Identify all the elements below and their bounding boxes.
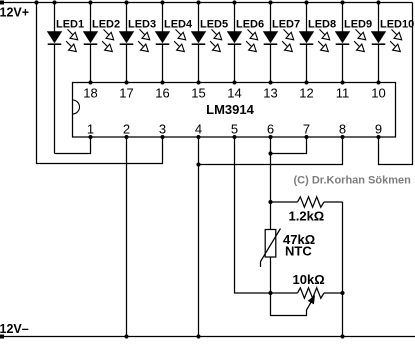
svg-text:6: 6 (267, 122, 274, 137)
pin 11 of U1 (336, 81, 350, 101)
wire pin6 (RHI) down to thermistor (270, 137, 272, 230)
wire pin8 to pin4 (199, 137, 343, 165)
node R1 left junction (268, 200, 272, 204)
wire pin3 (V+) to 12V+ rail (37, 3, 163, 164)
LED D9 (LED9) (336, 3, 372, 83)
svg-text:12V–: 12V– (0, 322, 29, 336)
LED D6 (LED6) (228, 3, 264, 83)
wire R1 right to 12V- rail (342, 202, 344, 337)
svg-text:12: 12 (299, 86, 313, 101)
svg-text:10kΩ: 10kΩ (293, 272, 325, 287)
svg-text:10: 10 (371, 86, 385, 101)
svg-text:4: 4 (195, 122, 202, 137)
pot wiper arrow (307, 296, 315, 310)
pin 15 of U1 (191, 81, 205, 101)
node rail junctions on 12V- (124, 334, 344, 338)
svg-text:LED2: LED2 (92, 19, 120, 31)
pin 12 of U1 (299, 81, 313, 101)
wire pin1 to LED1 cathode (55, 137, 91, 154)
wire pin7 (REF OUT) to pin6 (271, 137, 307, 154)
node pot right / R1 junction (340, 291, 344, 295)
LED D4 (LED4) (156, 3, 193, 83)
svg-text:LED3: LED3 (128, 19, 156, 31)
potentiometer P1 10kΩ (271, 272, 343, 298)
pin 9 of U1 (375, 122, 382, 140)
svg-text:LED4: LED4 (164, 19, 193, 31)
svg-text:18: 18 (83, 86, 97, 101)
pin 10 of U1 (371, 81, 385, 101)
pin 14 of U1 (227, 81, 241, 101)
svg-text:9: 9 (375, 122, 382, 137)
wire pin2 to 12V- rail (126, 137, 128, 337)
pin 7 of U1 (303, 122, 310, 140)
svg-text:NTC: NTC (285, 244, 312, 259)
svg-text:13: 13 (263, 86, 277, 101)
svg-text:LED6: LED6 (236, 19, 264, 31)
wire pin9 (MODE) to 12V+ rail (379, 3, 413, 165)
LED D5 (LED5) (192, 3, 228, 83)
svg-text:8: 8 (339, 122, 346, 137)
svg-text:(C) Dr.Korhan Sökmen: (C) Dr.Korhan Sökmen (294, 175, 412, 187)
svg-text:12V+: 12V+ (0, 5, 29, 19)
wire pin4 to 12V- rail (198, 137, 200, 337)
svg-text:LED8: LED8 (308, 19, 336, 31)
wire pin5 (SIG IN) to divider node (235, 137, 271, 293)
svg-text:14: 14 (227, 86, 241, 101)
LED D10 (LED10) (372, 3, 415, 83)
pin 4 of U1 (195, 122, 202, 140)
svg-text:11: 11 (336, 86, 350, 101)
pin 1 of U1 (87, 122, 94, 140)
pin 6 of U1 (267, 122, 274, 140)
svg-text:5: 5 (231, 122, 238, 137)
svg-text:LED7: LED7 (272, 19, 300, 31)
pin 5 of U1 (231, 122, 238, 140)
svg-text:1.2kΩ: 1.2kΩ (289, 209, 325, 224)
pin 13 of U1 (263, 81, 277, 101)
svg-text:LED5: LED5 (200, 19, 228, 31)
svg-text:LM3914: LM3914 (206, 102, 254, 117)
svg-text:LED9: LED9 (344, 19, 372, 31)
node divider junction (pin5/NTC/pot) (268, 291, 272, 295)
op-amp / IC U1 LM3914 body (73, 83, 396, 138)
svg-text:LED1: LED1 (56, 19, 84, 31)
pin 17 of U1 (119, 81, 133, 101)
svg-text:1: 1 (87, 122, 94, 137)
node pin6/pin7 junction (268, 151, 272, 155)
pin 2 of U1 (123, 122, 130, 140)
svg-text:16: 16 (155, 86, 169, 101)
LED D7 (LED7) (264, 3, 300, 83)
junction dots on 12V+ rail (34, 0, 380, 4)
12V- power rail (0, 322, 415, 339)
pin 8 of U1 (339, 122, 346, 140)
node pin4/pin8 junction (196, 162, 200, 166)
svg-text:7: 7 (303, 122, 310, 137)
svg-text:LED10: LED10 (380, 19, 414, 31)
LED D8 (LED8) (300, 3, 336, 83)
pin 18 of U1 (83, 81, 97, 101)
svg-text:2: 2 (123, 122, 130, 137)
LED D2 (LED2) (84, 3, 120, 83)
pin 3 of U1 (159, 122, 166, 140)
wire pot wiper return (271, 293, 307, 316)
svg-text:17: 17 (119, 86, 133, 101)
svg-text:3: 3 (159, 122, 166, 137)
LED D1 (LED1) (48, 3, 84, 154)
12V+ power rail (0, 1, 413, 20)
LED D3 (LED3) (120, 3, 156, 83)
thermistor RT1 47kΩ NTC (261, 229, 316, 268)
pin 16 of U1 (155, 81, 169, 101)
svg-text:15: 15 (191, 86, 205, 101)
resistor R1 1.2kΩ (271, 197, 343, 224)
wire thermistor bottom to divider node (270, 257, 272, 293)
